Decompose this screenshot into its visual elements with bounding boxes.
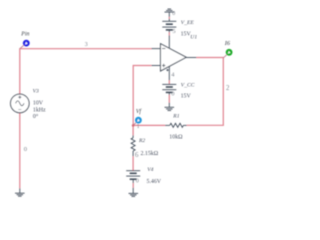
svg-text:5.46V: 5.46V <box>147 179 162 185</box>
svg-text:5: 5 <box>173 28 176 35</box>
svg-text:3: 3 <box>85 41 88 48</box>
svg-text:6: 6 <box>135 152 139 159</box>
svg-text:V_EE: V_EE <box>181 20 195 26</box>
svg-text:0: 0 <box>136 178 139 185</box>
svg-text:U1: U1 <box>190 35 197 41</box>
svg-text:2.15kΩ: 2.15kΩ <box>141 151 159 157</box>
svg-text:Pin: Pin <box>20 32 29 38</box>
svg-text:R2: R2 <box>138 138 145 144</box>
svg-text:V_CC: V_CC <box>181 83 195 89</box>
svg-text:V4: V4 <box>147 167 153 173</box>
svg-text:1: 1 <box>137 124 140 130</box>
svg-text:1kHz: 1kHz <box>33 107 46 113</box>
svg-text:0: 0 <box>172 11 175 17</box>
svg-text:V3: V3 <box>33 88 39 94</box>
svg-text:I6: I6 <box>224 40 231 47</box>
svg-text:0°: 0° <box>33 113 39 120</box>
svg-text:15V: 15V <box>181 93 192 99</box>
svg-text:10kΩ: 10kΩ <box>169 135 183 141</box>
svg-text:0: 0 <box>171 91 174 98</box>
svg-text:2: 2 <box>226 85 230 92</box>
svg-text:10V: 10V <box>33 101 44 107</box>
svg-text:R1: R1 <box>172 114 179 120</box>
